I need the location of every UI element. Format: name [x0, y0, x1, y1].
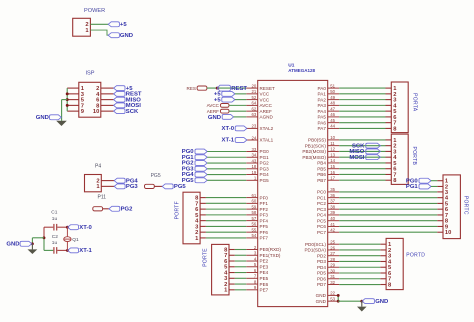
svg-text:55: 55 — [252, 227, 257, 232]
svg-text:34: 34 — [252, 153, 257, 158]
svg-text:10: 10 — [330, 135, 335, 140]
svg-text:PB3(MISO): PB3(MISO) — [302, 155, 326, 160]
wire PG5 to U1 — [207, 179, 246, 181]
U1 pin 20 RESET (left) — [246, 87, 258, 89]
svg-text:PD2: PD2 — [317, 253, 326, 258]
wire U1 PD2 to PORTD 3 — [339, 255, 380, 257]
U1 pin 45 PA6 (right) — [328, 122, 340, 124]
net flag +5 — [114, 86, 125, 91]
svg-text:PE2: PE2 — [260, 259, 269, 264]
svg-text:PA2: PA2 — [318, 97, 327, 102]
U1 pin 51 PA0 (right) — [328, 87, 340, 89]
wire +5 to U1 VCC — [235, 99, 246, 101]
wire +5 to U1 VCC — [235, 93, 246, 95]
supply flag GND (U1) — [362, 299, 374, 304]
wire U1 PC0 to PORTC 3 — [339, 191, 437, 193]
wire U1 PA6 to PORTA 7 — [339, 122, 385, 124]
wire U1 PD1 to PORTD 2 — [339, 249, 380, 251]
svg-text:AVCC: AVCC — [260, 103, 273, 108]
svg-text:MOSI: MOSI — [349, 155, 364, 161]
U1 pin 56 PF5 (left) — [246, 225, 258, 227]
wire PORTE 6 to U1 PE2 — [235, 260, 246, 262]
svg-text:PG3: PG3 — [126, 184, 139, 190]
wire crystal left vertical lower — [43, 238, 45, 251]
junction ISP pin3 — [66, 92, 69, 95]
wire U1 PC2 to PORTC 5 — [339, 202, 437, 204]
wire PG1 to PORTC — [431, 185, 437, 187]
svg-text:PD6: PD6 — [317, 276, 326, 281]
wire PG0 to U1 — [207, 151, 246, 153]
junction XT-0 node — [66, 226, 69, 229]
svg-text:PG2: PG2 — [121, 207, 134, 213]
wire XT-0 right of C1 — [57, 226, 67, 228]
svg-text:ISP: ISP — [86, 70, 95, 76]
net flag PG5 — [195, 178, 207, 183]
jumper PG5 — [145, 184, 155, 188]
wire PORTE 5 to U1 PE3 — [235, 266, 246, 268]
svg-text:60: 60 — [252, 199, 257, 204]
wire PORTE 8 to U1 PE0 — [235, 249, 246, 251]
svg-text:1u: 1u — [52, 240, 58, 246]
U1 pin 32 PD7 (right) — [328, 284, 340, 286]
wire U1 PD4 to PORTD 5 — [339, 266, 380, 268]
net flag PG4 — [195, 172, 207, 177]
svg-text:XTAL2: XTAL2 — [260, 126, 274, 131]
svg-text:GND: GND — [208, 115, 221, 121]
U1 pin 54 PF7 (left) — [246, 237, 258, 239]
wire P4 to PG4 — [101, 180, 114, 182]
wire PORTF 3 to U1 PF5 — [206, 225, 246, 227]
svg-text:26: 26 — [330, 245, 335, 250]
net flag MISO — [114, 97, 125, 102]
svg-text:XT-0: XT-0 — [79, 225, 92, 231]
wire P4 to PG3 — [101, 185, 114, 187]
wire PORTE 1 to U1 PE7 — [235, 289, 246, 291]
svg-text:36: 36 — [330, 193, 335, 198]
svg-text:PG3: PG3 — [260, 166, 270, 171]
U1 pin 16 PB6 (right) — [328, 173, 340, 175]
junction GND pin 22 — [337, 294, 340, 297]
wire PORTF 6 to U1 PF2 — [206, 208, 246, 210]
svg-text:PF3: PF3 — [260, 213, 269, 218]
wire XT-1 left of C2 — [44, 249, 53, 251]
U1 pin 2 PE0(RXD) (left) — [246, 249, 258, 251]
svg-text:PF5: PF5 — [260, 224, 269, 229]
svg-text:53: 53 — [330, 296, 335, 301]
ground symbol (crystal) — [28, 249, 38, 254]
wire XT-1 right of C2 — [57, 249, 67, 251]
U1 pin 42 PC7 (right) — [328, 231, 340, 233]
U1 pin 48 PA3 (right) — [328, 104, 340, 106]
U1 pin 60 PF1 (left) — [246, 202, 258, 204]
wire gnd branch down — [31, 238, 33, 244]
wire GND vertical — [337, 295, 339, 301]
svg-text:PA0: PA0 — [318, 86, 327, 91]
U1 pin 40 PC5 (right) — [328, 220, 340, 222]
U1 pin 53 GND (right) — [328, 300, 340, 302]
svg-text:RES: RES — [187, 86, 196, 91]
crystal Q1 — [66, 227, 68, 237]
wire U1 PB5 to PORTB 6 — [339, 168, 385, 170]
U1 pin 6 PE4 (left) — [246, 272, 258, 274]
svg-text:43: 43 — [252, 158, 257, 163]
supply flag GND (POWER) — [108, 33, 119, 38]
svg-text:RESET: RESET — [260, 86, 276, 91]
svg-text:PD3: PD3 — [317, 259, 326, 264]
svg-text:PF1: PF1 — [260, 201, 269, 206]
svg-text:C2: C2 — [52, 234, 58, 240]
U1 pin 1 PG5 (left) — [246, 179, 258, 181]
svg-text:47: 47 — [330, 106, 335, 111]
svg-text:22: 22 — [330, 291, 335, 296]
svg-text:17: 17 — [330, 176, 335, 181]
wire U1 PC4 to PORTC 7 — [339, 214, 437, 216]
svg-text:PF4: PF4 — [260, 218, 269, 223]
svg-text:19: 19 — [252, 170, 257, 175]
svg-text:21: 21 — [252, 89, 257, 94]
net flag MOSI — [114, 103, 125, 108]
net flag XT-1 (crystal) — [68, 248, 79, 253]
svg-text:PG5: PG5 — [174, 184, 187, 190]
svg-text:PD5: PD5 — [317, 271, 326, 276]
svg-text:13: 13 — [330, 152, 335, 157]
U1 pin 52 VCC (left) — [246, 99, 258, 101]
svg-text:AERF: AERF — [207, 109, 219, 114]
wire GND to U1 AGND — [234, 116, 247, 118]
svg-text:PA1: PA1 — [318, 92, 327, 97]
U1 pin 10 PB0(SS) (right) — [328, 139, 340, 141]
wire U1 PB0 to PORTB 1 — [339, 139, 385, 141]
U1 pin 4 PE2 (left) — [246, 260, 258, 262]
U1 pin 13 PB3(MISO) (right) — [328, 156, 340, 158]
svg-text:45: 45 — [330, 118, 335, 123]
wire PG2 to U1 — [207, 162, 246, 164]
svg-text:10: 10 — [93, 109, 99, 115]
svg-text:PG1: PG1 — [260, 155, 270, 160]
U1 pin 55 PF6 (left) — [246, 231, 258, 233]
svg-text:39: 39 — [330, 210, 335, 215]
net flag PG4 (P4) — [114, 178, 125, 183]
connector PORTE — [212, 244, 229, 295]
U1 pin 46 PA5 (right) — [328, 116, 340, 118]
wire U1 PA2 to PORTA 3 — [339, 99, 385, 101]
net flag PG5 (jumper) — [162, 184, 173, 189]
svg-text:20: 20 — [252, 83, 257, 88]
svg-text:46: 46 — [330, 112, 335, 117]
net flag MOSI — [366, 155, 381, 160]
supply flag GND (AGND) — [222, 114, 233, 119]
svg-text:PG5: PG5 — [260, 178, 270, 183]
svg-text:PC1: PC1 — [317, 195, 326, 200]
svg-text:PF7: PF7 — [260, 236, 269, 241]
wire U1 PC3 to PORTC 6 — [339, 208, 437, 210]
jumper RES — [197, 86, 207, 90]
svg-text:PB0(SS): PB0(SS) — [308, 138, 326, 143]
svg-text:PORTB: PORTB — [411, 146, 417, 165]
svg-text:51: 51 — [330, 83, 335, 88]
svg-text:PF2: PF2 — [260, 207, 269, 212]
net flag PG3 (P4) — [114, 184, 125, 189]
svg-text:16: 16 — [330, 170, 335, 175]
wire U1 PB1 to PORTB 2 — [339, 145, 385, 147]
net flag PG0 — [195, 149, 207, 154]
wire PORTF 4 to U1 PF4 — [206, 220, 246, 222]
svg-text:VCC: VCC — [260, 92, 270, 97]
wire U1 PC7 to PORTC 10 — [339, 231, 437, 233]
wire PG3 to U1 — [207, 168, 246, 170]
wire U1 PA5 to PORTA 6 — [339, 116, 385, 118]
svg-text:AREF: AREF — [260, 109, 272, 114]
U1 pin 59 PF2 (left) — [246, 208, 258, 210]
U1 pin 34 PG1 (left) — [246, 156, 258, 158]
svg-text:PC5: PC5 — [317, 218, 326, 223]
U1 pin 30 PD5 (right) — [328, 272, 340, 274]
U1 pin 14 PB4 (right) — [328, 162, 340, 164]
wire ISP gnd down — [61, 100, 63, 121]
U1 pin 57 PF4 (left) — [246, 220, 258, 222]
wire gnd branch horizontal — [32, 237, 44, 239]
wire POWER pin2 to +5 — [90, 23, 108, 25]
wire PORTF 5 to U1 PF3 — [206, 214, 246, 216]
connector POWER — [73, 18, 91, 36]
svg-text:10: 10 — [445, 230, 451, 236]
U1 pin 15 PB5 (right) — [328, 168, 340, 170]
svg-text:PC4: PC4 — [317, 213, 326, 218]
svg-text:41: 41 — [330, 222, 335, 227]
svg-text:P4: P4 — [95, 164, 101, 170]
U1 pin 33 PG0 (left) — [246, 151, 258, 153]
svg-text:PE5: PE5 — [260, 276, 269, 281]
svg-text:12: 12 — [330, 147, 335, 152]
U1 pin 47 PA4 (right) — [328, 110, 340, 112]
ground symbol (U1) — [357, 307, 367, 312]
U1 pin 38 PC3 (right) — [328, 208, 340, 210]
svg-text:PG5: PG5 — [182, 178, 195, 184]
svg-text:PA4: PA4 — [318, 109, 327, 114]
junction crystal gnd branch — [43, 236, 46, 239]
svg-text:40: 40 — [330, 216, 335, 221]
svg-text:PB2(MOSI): PB2(MOSI) — [302, 149, 326, 154]
net flag PG2 — [195, 161, 207, 166]
svg-text:52: 52 — [252, 95, 257, 100]
junction ISP pin7 — [66, 104, 69, 107]
svg-text:PA3: PA3 — [318, 103, 327, 108]
svg-text:54: 54 — [252, 233, 257, 238]
wire XT-0 left of C1 — [44, 226, 53, 228]
net flag PG2 (P11) — [109, 206, 120, 211]
svg-text:63: 63 — [252, 112, 257, 117]
U1 pin 3 PE1(TXD) (left) — [246, 254, 258, 256]
wire PORTE 2 to U1 PE6 — [235, 283, 246, 285]
svg-text:PD4: PD4 — [317, 265, 326, 270]
ground symbol (ISP) — [56, 121, 67, 126]
net flag XT-1 — [235, 138, 247, 143]
svg-text:AGND: AGND — [260, 115, 274, 120]
svg-text:PE3: PE3 — [260, 264, 269, 269]
junction GND pin 53 — [337, 300, 340, 303]
connector ISP — [79, 82, 101, 117]
svg-text:PE1(TXD): PE1(TXD) — [260, 253, 281, 258]
U1 pin 24 XTAL1 (left) — [246, 139, 258, 141]
svg-text:35: 35 — [330, 187, 335, 192]
wire U1 PA0 to PORTA 1 — [339, 87, 385, 89]
U1 pin 26 PD1(SDA) (right) — [328, 249, 340, 251]
svg-text:POWER: POWER — [84, 8, 105, 14]
svg-text:XT-1: XT-1 — [79, 248, 92, 254]
U1 pin 41 PC6 (right) — [328, 225, 340, 227]
svg-text:27: 27 — [330, 251, 335, 256]
svg-text:PE7: PE7 — [260, 288, 269, 293]
U1 pin 21 VCC (left) — [246, 93, 258, 95]
wire PORTF 7 to U1 PF1 — [206, 202, 246, 204]
supply flag +5 (VCC) — [222, 97, 235, 102]
connector P11 — [93, 207, 103, 211]
wire ISP gnd branch — [62, 99, 68, 101]
wire U1 PC5 to PORTC 8 — [339, 220, 437, 222]
svg-text:PG1: PG1 — [406, 184, 419, 190]
wire U1 PD3 to PORTD 4 — [339, 260, 380, 262]
wire PG4 to U1 — [207, 174, 246, 176]
svg-text:GND: GND — [36, 115, 49, 121]
wire AERF to U1 — [229, 110, 246, 112]
svg-text:PA6: PA6 — [318, 120, 327, 125]
wire U1 PC1 to PORTC 4 — [339, 197, 437, 199]
wire crystal left vertical upper — [43, 227, 45, 238]
wire GND run — [338, 300, 362, 302]
U1 pin 25 PD0(SCL) (right) — [328, 243, 340, 245]
supply flag +5 (VCC) — [222, 91, 235, 96]
svg-text:XTAL1: XTAL1 — [260, 138, 274, 143]
svg-text:58: 58 — [252, 210, 257, 215]
net flag XT-0 — [235, 126, 247, 131]
wire U1 PA1 to PORTA 2 — [339, 93, 385, 95]
svg-text:37: 37 — [330, 199, 335, 204]
jumper AVCC — [220, 103, 229, 107]
wire PORTF 8 to U1 PF0 — [206, 197, 246, 199]
wire U1 PB2 to PORTB 3 — [339, 150, 385, 152]
U1 pin 19 PG4 (left) — [246, 174, 258, 176]
svg-text:PG5: PG5 — [151, 173, 161, 179]
svg-text:PORTD: PORTD — [406, 253, 425, 259]
svg-text:18: 18 — [252, 164, 257, 169]
svg-text:Q1: Q1 — [72, 237, 79, 243]
wire PORTF 1 to U1 PF7 — [206, 237, 246, 239]
svg-text:REST: REST — [231, 86, 247, 92]
U1 pin 58 PF3 (left) — [246, 214, 258, 216]
svg-text:PE6: PE6 — [260, 282, 269, 287]
svg-text:PC2: PC2 — [317, 201, 326, 206]
wire P11 to PG2 — [103, 208, 109, 210]
wire PORTE 4 to U1 PE4 — [235, 272, 246, 274]
svg-text:33: 33 — [252, 147, 257, 152]
wire PG5 jumper to flag — [154, 185, 162, 187]
wire U1 PA4 to PORTA 5 — [339, 110, 385, 112]
svg-text:61: 61 — [252, 193, 257, 198]
svg-text:PB6: PB6 — [317, 172, 326, 177]
wire ISP gnd bus vertical — [66, 88, 68, 111]
wire U1 PD6 to PORTD 7 — [339, 278, 380, 280]
svg-text:+5: +5 — [120, 22, 127, 28]
svg-text:24: 24 — [252, 135, 257, 140]
svg-text:C1: C1 — [51, 210, 57, 216]
svg-text:29: 29 — [330, 263, 335, 268]
U1 pin 28 PD3 (right) — [328, 260, 340, 262]
IC U1 body — [258, 80, 328, 306]
wire U1 PB6 to PORTB 7 — [339, 173, 385, 175]
svg-text:ATMEGA128: ATMEGA128 — [288, 68, 315, 73]
svg-text:PORTE: PORTE — [202, 248, 208, 267]
wire PORTE 7 to U1 PE1 — [235, 254, 246, 256]
U1 pin 7 PE5 (left) — [246, 277, 258, 279]
junction gnd flag node — [31, 242, 34, 245]
svg-text:GND: GND — [6, 242, 19, 248]
svg-text:PG0: PG0 — [260, 149, 270, 154]
svg-text:PG2: PG2 — [260, 161, 270, 166]
wire U1 PD0 to PORTD 1 — [339, 243, 380, 245]
net flag REST — [114, 91, 125, 96]
connector PORTD — [386, 238, 403, 289]
U1 pin 39 PC4 (right) — [328, 214, 340, 216]
svg-text:VCC: VCC — [260, 97, 270, 102]
U1 pin 29 PD4 (right) — [328, 266, 340, 268]
svg-text:57: 57 — [252, 216, 257, 221]
svg-text:38: 38 — [330, 204, 335, 209]
junction XT-1 node — [66, 249, 69, 252]
U1 pin 9 PE7 (left) — [246, 289, 258, 291]
svg-text:1u: 1u — [52, 216, 58, 222]
svg-text:PC6: PC6 — [317, 224, 326, 229]
net flag PG3 — [195, 166, 207, 171]
svg-text:25: 25 — [330, 240, 335, 245]
svg-text:PORTA: PORTA — [411, 93, 417, 112]
svg-text:28: 28 — [330, 257, 335, 262]
U1 pin 11 PB1(SCK) (right) — [328, 145, 340, 147]
svg-text:GND: GND — [375, 299, 388, 305]
U1 pin 27 PD2 (right) — [328, 255, 340, 257]
capacitor C1 — [53, 224, 55, 231]
net flag XT-0 (crystal) — [68, 225, 79, 230]
jumper AERF — [220, 109, 229, 113]
svg-text:PB1(SCK): PB1(SCK) — [305, 143, 327, 148]
svg-text:14: 14 — [330, 158, 335, 163]
junction ISP pin5 — [66, 98, 69, 101]
svg-text:PB7: PB7 — [317, 178, 326, 183]
supply flag GND (crystal) — [20, 241, 32, 246]
U1 pin 8 PE6 (left) — [246, 283, 258, 285]
wire U1 PA3 to PORTA 4 — [339, 104, 385, 106]
net flag SCK — [114, 109, 125, 114]
connector PORTB — [391, 134, 408, 184]
svg-text:PC0: PC0 — [317, 190, 326, 195]
svg-text:GND: GND — [316, 299, 327, 304]
connector P4 — [85, 175, 102, 192]
svg-text:56: 56 — [252, 222, 257, 227]
svg-text:42: 42 — [330, 228, 335, 233]
U1 pin 62 AREF (left) — [246, 110, 258, 112]
net flag SCK — [366, 143, 381, 148]
wire POWER pin1 to GND — [90, 30, 108, 35]
svg-text:PA5: PA5 — [318, 115, 327, 120]
svg-text:GND: GND — [316, 293, 327, 298]
U1 pin 22 GND (right) — [328, 294, 340, 296]
U1 pin 44 PA7 (right) — [328, 127, 340, 129]
svg-text:PORTC: PORTC — [463, 196, 469, 215]
capacitor C2 — [53, 247, 55, 254]
U1 pin 64 AVCC (left) — [246, 104, 258, 106]
svg-text:15: 15 — [330, 164, 335, 169]
wire U1 PD7 to PORTD 8 — [339, 284, 380, 286]
svg-text:49: 49 — [330, 95, 335, 100]
